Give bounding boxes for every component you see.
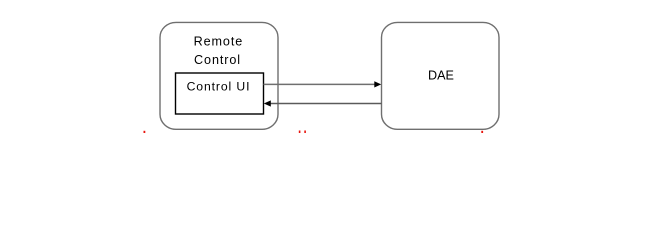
Remote Control label <box>194 35 244 68</box>
Remote Control box <box>160 22 278 129</box>
DAE box <box>382 22 500 129</box>
svg-text:Remote: Remote <box>194 35 244 49</box>
red speck 4 <box>481 131 483 133</box>
svg-text:Control: Control <box>194 53 241 67</box>
wire bottom arrow shaft <box>271 103 382 105</box>
red speck 2 <box>299 131 301 134</box>
bottom arrowhead (points left into Control UI) <box>264 100 271 106</box>
svg-text:Control UI: Control UI <box>187 79 251 93</box>
top arrowhead (points right into DAE) <box>374 81 381 87</box>
red speck 1 (cut-off red text at bottom) <box>144 131 146 133</box>
svg-text:DAE: DAE <box>428 69 454 83</box>
wire top arrow shaft <box>264 83 376 85</box>
red speck 3 <box>304 131 306 134</box>
Control UI box <box>176 73 264 114</box>
